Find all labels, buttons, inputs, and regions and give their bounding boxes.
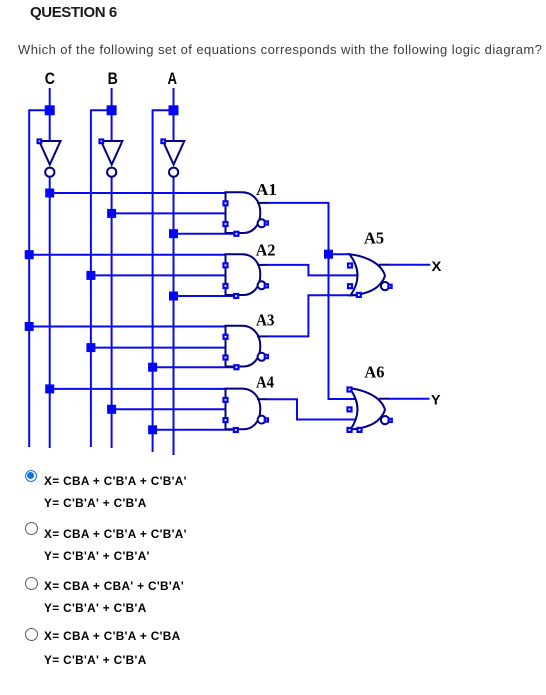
inverter A bubble: [169, 168, 178, 177]
svg-text:A2: A2: [256, 240, 275, 259]
svg-text:C: C: [45, 70, 55, 88]
radio option 2: [25, 522, 38, 535]
junction A1-A5 node: [324, 250, 333, 259]
junction row1: [45, 189, 54, 198]
junction row3: [169, 229, 178, 238]
wire row2 B' to A1: [112, 212, 226, 214]
svg-text:A: A: [168, 70, 178, 88]
junction row9: [148, 363, 157, 372]
wire row12 A to A4: [153, 429, 236, 431]
wire row7 C to A3: [29, 326, 226, 328]
pins A2: [224, 263, 228, 267]
radio option 1 (selected): [25, 470, 37, 482]
nand gate A1: [226, 192, 268, 233]
nand gate A3: [226, 326, 268, 367]
wire A1 branch to A5 in1: [329, 253, 350, 255]
wire C input stub: [49, 88, 51, 141]
pin inverter B: [100, 140, 104, 144]
junction row2: [107, 209, 116, 218]
wire A4 output to A6 in2: [267, 399, 356, 419]
nand A1 bubble: [258, 219, 266, 227]
svg-text:A1: A1: [256, 180, 277, 199]
svg-text:B: B: [108, 70, 118, 88]
wire row5 B to A2: [91, 274, 226, 276]
svg-text:A3: A3: [256, 310, 275, 329]
wire B input stub: [111, 88, 113, 141]
A5 bubble: [381, 282, 389, 290]
inverter C bubble: [45, 168, 54, 177]
junction row4: [25, 250, 34, 259]
nor-style gate A6: [350, 388, 390, 429]
radio option 3: [25, 577, 38, 590]
wire row6 A' to A2: [174, 295, 237, 297]
nand A3 bubble: [258, 353, 266, 361]
pins A4: [224, 398, 228, 402]
wire A3 output to A5 in3: [267, 295, 360, 336]
wire row8 B to A3: [91, 347, 226, 349]
svg-text:A5: A5: [364, 229, 384, 248]
wire A2 output to A5 in2: [267, 265, 357, 276]
pin inverter A: [161, 140, 165, 144]
wire B branch: [90, 109, 112, 447]
radio option 4: [25, 628, 38, 641]
wire B' bus: [111, 177, 113, 448]
wire A6 output to Y: [389, 398, 430, 400]
wire row9 A to A3: [153, 366, 237, 368]
junction row10: [45, 384, 54, 393]
junction B top: [107, 105, 117, 115]
svg-text:Y: Y: [431, 392, 441, 408]
nor-style gate A5: [350, 254, 390, 295]
wire A1 output to A5 and A6: [267, 203, 356, 399]
junction C top: [45, 105, 55, 115]
junction row8: [86, 343, 95, 352]
wire C branch: [28, 109, 50, 447]
wire row11 B' to A4: [112, 408, 226, 410]
junction row7: [25, 322, 34, 331]
pins A6: [348, 388, 352, 392]
pins A3: [224, 335, 228, 339]
inverter B bubble: [107, 168, 116, 177]
junction row5: [86, 271, 95, 280]
wire A input stub: [173, 88, 175, 141]
nand gate A4: [226, 389, 268, 430]
wire C' bus: [49, 177, 51, 448]
wire row3 A' to A1: [174, 233, 237, 235]
pin inverter C: [38, 140, 42, 144]
wire row10 C' to A4: [50, 388, 226, 390]
junction row6: [169, 292, 178, 301]
pins A5: [348, 264, 352, 268]
nand gate A2: [226, 254, 268, 295]
svg-text:A6: A6: [364, 363, 384, 382]
wire row1 C' to A1: [50, 192, 226, 194]
inverter C NOT gate: [39, 141, 60, 165]
inverter A NOT gate: [163, 141, 184, 165]
nand A4 bubble: [258, 416, 266, 424]
inverter B NOT gate: [101, 141, 122, 165]
junction row12: [148, 425, 157, 434]
junction A top: [169, 105, 179, 115]
pins A1: [224, 201, 228, 205]
junction row11: [107, 405, 116, 414]
wire A' bus: [173, 177, 175, 455]
svg-text:A4: A4: [256, 372, 274, 391]
wire row4 C to A2: [29, 254, 226, 256]
A6 bubble: [381, 416, 389, 424]
svg-text:X: X: [432, 258, 442, 274]
wire A5 output to X: [389, 264, 430, 266]
wire A branch: [152, 109, 174, 452]
nand A2 bubble: [258, 281, 266, 289]
